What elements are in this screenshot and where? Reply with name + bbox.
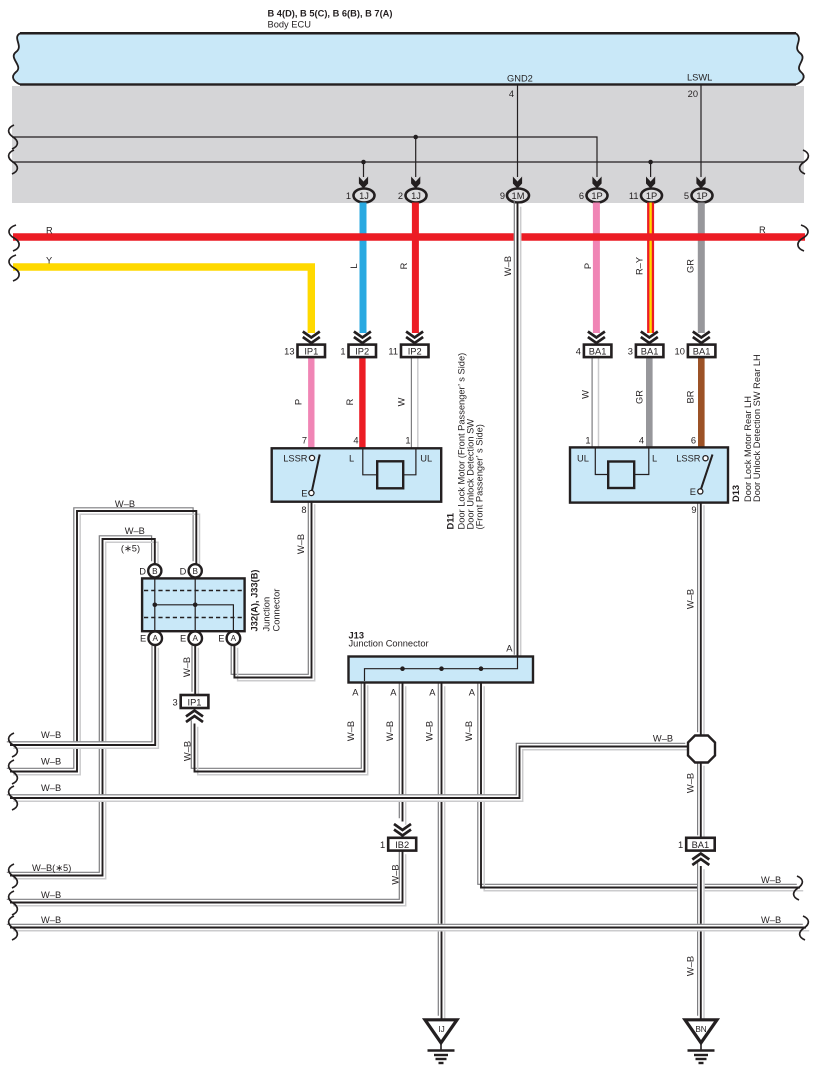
wire GR grey BA1 to D13 pin4	[646, 357, 653, 447]
svg-text:A: A	[429, 688, 436, 698]
svg-text:W–B: W–B	[653, 734, 673, 744]
chevron down into BA1 pin3	[641, 332, 658, 344]
svg-text:BA1: BA1	[641, 347, 659, 357]
svg-text:13: 13	[284, 347, 294, 357]
svg-text:L: L	[652, 453, 657, 463]
W-B loop to J32 B2	[7, 508, 200, 775]
svg-text:BN: BN	[695, 1025, 706, 1034]
svg-text:W–B: W–B	[41, 730, 61, 740]
chevron down into IP2	[354, 332, 371, 344]
svg-text:P: P	[294, 399, 304, 405]
svg-text:Junction Connector: Junction Connector	[349, 639, 429, 649]
wire W white IP2 to D11 pin1	[411, 357, 417, 448]
wire Y yellow from left to IP1	[13, 267, 311, 333]
svg-text:6: 6	[579, 191, 584, 201]
chevron down into BA1 pin10	[693, 332, 710, 344]
svg-text:9: 9	[691, 505, 696, 515]
connector box 3 BA1	[636, 345, 664, 358]
branch to 11 1P	[650, 162, 652, 177]
W-B(*5) loop to J32 B1	[7, 536, 158, 879]
W-B wire octagon to BA1	[698, 759, 704, 841]
J32 internal junction dots	[153, 603, 158, 608]
svg-text:8: 8	[301, 505, 306, 515]
chevron down into IP2 pin11	[406, 332, 423, 344]
J13 internal junction dots	[400, 666, 405, 671]
wire W white BA1 to D13 pin1	[592, 357, 598, 447]
svg-text:GR: GR	[686, 259, 696, 273]
J13 internal wire	[365, 658, 518, 682]
svg-text:4: 4	[576, 347, 581, 357]
W-B wire left edge to J32 A1	[7, 641, 159, 748]
svg-text:W–B: W–B	[182, 657, 192, 677]
junction dot	[648, 160, 653, 165]
svg-text:W–B: W–B	[115, 499, 135, 509]
svg-text:UL: UL	[577, 453, 589, 463]
svg-text:4: 4	[509, 89, 514, 99]
svg-text:1: 1	[585, 436, 590, 446]
Body ECU block B4(D),B5(C),B6(B),B7(A)	[13, 33, 804, 84]
chevron down into BA1 pin4	[588, 332, 605, 344]
D13 LSSR switch	[703, 456, 708, 461]
svg-text:W–B: W–B	[464, 721, 474, 741]
svg-text:Door Unlock Detection SW Rear: Door Unlock Detection SW Rear LH	[752, 354, 762, 502]
wire R-Y from 1P pin11 to BA1	[647, 203, 654, 334]
branch to 1 1J	[363, 162, 365, 177]
chevron down into IP1	[303, 332, 320, 344]
svg-text:E: E	[218, 634, 224, 644]
svg-text:A: A	[469, 688, 476, 698]
D11 LSSR switch	[309, 455, 314, 460]
svg-text:BA1: BA1	[692, 840, 710, 850]
svg-text:W–B: W–B	[183, 741, 193, 761]
break squiggles right edge	[794, 150, 809, 940]
wire L blue from 1J pin1 to IP2	[360, 203, 367, 334]
svg-text:BR: BR	[686, 390, 696, 403]
connector oval 1P pin5	[692, 189, 713, 203]
svg-text:A: A	[231, 634, 237, 643]
svg-text:W–B: W–B	[686, 773, 696, 793]
W-B wire J13 wire4 to right edge	[478, 680, 803, 891]
svg-text:D: D	[139, 566, 146, 576]
W-B wire J13 to IJ ground	[438, 680, 444, 1022]
connector box 13 IP1	[298, 345, 326, 358]
svg-text:11: 11	[629, 191, 639, 201]
svg-text:3: 3	[173, 697, 178, 707]
svg-text:L: L	[349, 263, 359, 268]
svg-text:IP2: IP2	[355, 347, 369, 357]
wire P pink from 1P pin6 to BA1	[593, 203, 600, 334]
svg-text:9: 9	[500, 191, 505, 201]
svg-text:IJ: IJ	[438, 1025, 444, 1034]
connector oval 1M pin9	[507, 189, 529, 203]
J32 circle B2	[189, 564, 202, 577]
J13 junction connector bar	[349, 657, 534, 683]
svg-text:1: 1	[340, 347, 345, 357]
svg-text:W–B(∗5): W–B(∗5)	[32, 863, 71, 873]
svg-text:R: R	[399, 262, 409, 269]
octagon junction connector	[688, 736, 715, 763]
J32 dashed lines	[144, 591, 243, 618]
svg-text:1M: 1M	[512, 191, 525, 201]
svg-text:(∗5): (∗5)	[121, 544, 140, 554]
arrowheads into connectors	[359, 177, 706, 189]
svg-text:W–B: W–B	[503, 256, 513, 276]
svg-text:W–B: W–B	[425, 721, 435, 741]
svg-text:Body ECU: Body ECU	[268, 20, 311, 30]
J32 junction connector block	[142, 578, 245, 631]
svg-text:W: W	[581, 390, 591, 399]
connector oval 1P pin6	[587, 189, 608, 203]
svg-text:W–B: W–B	[686, 589, 696, 609]
svg-text:A: A	[506, 644, 513, 654]
svg-text:5: 5	[684, 191, 689, 201]
svg-text:W–B: W–B	[346, 721, 356, 741]
connector box 10 BA1	[688, 345, 716, 358]
ground BN	[685, 1020, 717, 1063]
W-B wire J13 to IB2	[399, 680, 405, 825]
svg-text:A: A	[192, 634, 198, 643]
W-B wire IP1 to J13 wire1	[191, 679, 367, 775]
svg-text:7: 7	[302, 436, 307, 446]
wire BR brown BA1 to D13 pin6	[698, 357, 705, 447]
W-B full width bottom wire	[7, 924, 809, 930]
svg-text:B: B	[192, 567, 198, 576]
J32 circle A2	[188, 631, 202, 645]
wire GR grey from 1P pin5 to BA1	[698, 203, 705, 334]
svg-text:W–B: W–B	[761, 875, 781, 885]
svg-text:1J: 1J	[359, 191, 369, 201]
svg-text:R: R	[759, 225, 766, 235]
wire P pink IP1 to D11 pin7	[308, 357, 314, 448]
svg-text:1J: 1J	[411, 191, 421, 201]
svg-text:BA1: BA1	[589, 347, 607, 357]
J32 circle A1	[148, 631, 162, 645]
ground IJ	[425, 1020, 457, 1063]
D13 door lock motor rear LH block	[570, 447, 728, 502]
svg-text:IP1: IP1	[304, 347, 318, 357]
connector box 4 BA1	[584, 345, 612, 358]
wire from LSWL pin 20	[700, 86, 702, 178]
D13 internal motor circuit	[595, 448, 649, 475]
svg-text:L: L	[349, 453, 354, 463]
svg-text:W–B: W–B	[686, 956, 696, 976]
svg-text:1: 1	[678, 840, 683, 850]
connector box 1 BA1 bottom	[686, 838, 715, 851]
svg-text:Connector: Connector	[272, 589, 282, 632]
svg-text:W–B: W–B	[125, 526, 145, 536]
wire R red from 1J pin2 to IP2	[412, 203, 419, 334]
svg-text:1P: 1P	[646, 191, 657, 201]
W-B wire BA1 to BN ground	[698, 863, 704, 1022]
svg-text:1P: 1P	[696, 191, 707, 201]
svg-text:B 4(D), B 5(C), B 6(B), B 7(A): B 4(D), B 5(C), B 6(B), B 7(A)	[268, 8, 393, 18]
branch to 2 1J	[415, 137, 417, 177]
svg-text:1P: 1P	[591, 191, 602, 201]
svg-text:W–B: W–B	[41, 783, 61, 793]
svg-text:Y: Y	[46, 256, 52, 266]
svg-text:1: 1	[405, 436, 410, 446]
svg-text:GR: GR	[635, 390, 645, 404]
svg-text:LSSR: LSSR	[283, 453, 308, 463]
svg-text:E: E	[301, 489, 307, 499]
W-B wire octagon to J13 riser	[7, 743, 692, 801]
svg-text:BA1: BA1	[693, 347, 711, 357]
chevron up below BA1	[692, 854, 709, 866]
svg-text:A: A	[152, 634, 158, 643]
D11 door lock motor front passenger block	[272, 448, 442, 501]
connector box 3 IP1 lower	[181, 695, 209, 708]
svg-text:W–B: W–B	[41, 757, 61, 767]
W-B wire from 1M to J13	[514, 200, 520, 661]
svg-text:A: A	[390, 688, 397, 698]
connector oval 1J pin2	[406, 189, 427, 203]
W-B wire J32 A2 to IP1	[192, 641, 198, 698]
wire from GND2 pin 4	[517, 86, 519, 178]
svg-text:E: E	[690, 487, 696, 497]
svg-text:E: E	[180, 634, 186, 644]
connector box 1 IB2	[388, 838, 416, 851]
svg-text:UL: UL	[420, 453, 432, 463]
svg-text:P: P	[583, 263, 593, 269]
svg-text:W–B: W–B	[761, 915, 781, 925]
svg-text:IB2: IB2	[395, 840, 409, 850]
svg-text:IP1: IP1	[188, 697, 202, 707]
junction dot	[361, 160, 366, 165]
W-B wire IB2 to left edge	[7, 848, 406, 906]
bus line 2 in grey band	[12, 161, 805, 163]
svg-text:2: 2	[398, 191, 403, 201]
J32 circle B1	[148, 564, 161, 577]
svg-text:1: 1	[346, 191, 351, 201]
svg-text:1: 1	[380, 840, 385, 850]
chevron up into IP1 bottom	[186, 711, 203, 723]
J32 circle A3	[227, 631, 241, 645]
svg-text:W–B: W–B	[296, 534, 306, 554]
bus line 1 in grey band	[12, 137, 597, 177]
svg-text:20: 20	[688, 89, 698, 99]
wire R red horizontal bus	[13, 233, 805, 241]
connector oval 1P pin11	[641, 189, 662, 203]
svg-text:W: W	[397, 397, 407, 406]
svg-text:4: 4	[353, 436, 358, 446]
connector box 11 IP2	[401, 345, 429, 358]
svg-text:D11: D11	[446, 513, 456, 530]
svg-text:6: 6	[691, 436, 696, 446]
svg-text:GND2: GND2	[507, 74, 533, 84]
chevron down into IB2	[394, 824, 411, 836]
svg-text:R: R	[345, 398, 355, 405]
connector oval 1J pin1	[354, 189, 375, 203]
svg-text:R–Y: R–Y	[635, 257, 645, 275]
break squiggles left edge	[9, 125, 20, 940]
junction dot on line1	[413, 135, 418, 140]
svg-text:R: R	[46, 226, 53, 236]
svg-text:W–B: W–B	[41, 890, 61, 900]
svg-text:(Front Passenger’ s Side): (Front Passenger’ s Side)	[475, 424, 485, 529]
svg-text:W–B: W–B	[391, 864, 401, 884]
J32 internal wires	[155, 578, 234, 631]
svg-text:B: B	[152, 567, 158, 576]
svg-text:11: 11	[388, 347, 398, 357]
svg-text:E: E	[140, 634, 146, 644]
W-B wire D13 pin9 E to octagon	[698, 499, 704, 739]
connector box 1 IP2	[349, 345, 377, 358]
wire R red IP2 to D11 pin4	[359, 357, 365, 448]
svg-text:W–B: W–B	[385, 721, 395, 741]
D11 internal motor circuit	[363, 449, 416, 475]
svg-text:J32(A), J33(B): J32(A), J33(B)	[250, 569, 260, 631]
svg-text:LSSR: LSSR	[676, 453, 701, 463]
svg-text:LSWL: LSWL	[687, 73, 712, 83]
svg-text:A: A	[352, 688, 359, 698]
svg-text:4: 4	[639, 436, 644, 446]
W-B wire D11 pin8 E to J32 A3	[231, 498, 315, 681]
grey band behind connectors	[12, 86, 804, 203]
svg-text:IP2: IP2	[408, 347, 422, 357]
svg-text:D: D	[180, 566, 187, 576]
svg-text:D13: D13	[731, 485, 741, 502]
svg-text:3: 3	[628, 347, 633, 357]
svg-text:W–B: W–B	[41, 915, 61, 925]
svg-text:Junction: Junction	[262, 597, 272, 632]
svg-text:10: 10	[675, 347, 685, 357]
